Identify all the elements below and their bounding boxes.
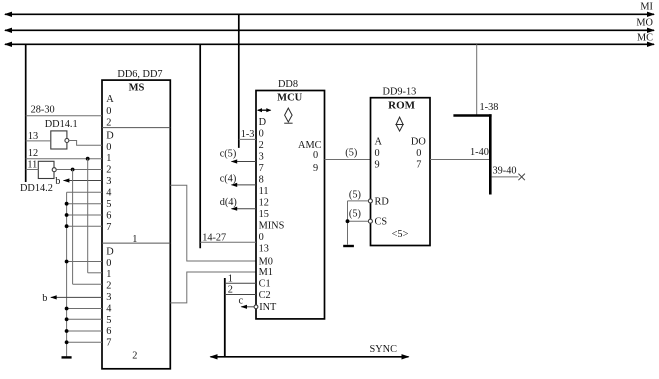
svg-text:0: 0 [375, 148, 380, 159]
wire MS second D2 from DD14.2 rail [73, 283, 102, 285]
svg-text:M0: M0 [259, 256, 273, 267]
wire MS D7 [67, 225, 102, 227]
svg-text:12: 12 [28, 148, 38, 159]
vertical ground rail [66, 192, 68, 357]
wire 11 to DD14.2 input [26, 160, 39, 171]
svg-text:ROM: ROM [388, 99, 416, 111]
svg-text:A: A [375, 137, 383, 148]
svg-text:1-40: 1-40 [470, 147, 489, 158]
wire MS second D1 from 12 rail [88, 272, 102, 274]
wire MS D5 [67, 203, 102, 205]
wire 39-40 with terminator [492, 165, 525, 180]
microprogram control unit MCU DD8 [256, 79, 325, 319]
svg-text:D: D [106, 130, 114, 141]
bus MO [4, 18, 655, 34]
svg-text:D: D [106, 246, 114, 257]
svg-text:c: c [239, 296, 244, 307]
svg-text:13: 13 [259, 244, 269, 255]
bus MC [4, 33, 655, 48]
svg-text:0: 0 [416, 148, 421, 159]
vertical from DD14.2 output [72, 170, 74, 285]
svg-text:1-38: 1-38 [480, 102, 499, 113]
svg-text:7: 7 [106, 222, 111, 233]
svg-text:4: 4 [106, 188, 111, 199]
svg-text:9: 9 [375, 160, 380, 171]
svg-text:4: 4 [106, 303, 111, 314]
wire SYNC [210, 344, 410, 359]
svg-text:11: 11 [27, 160, 37, 171]
svg-text:14-27: 14-27 [202, 233, 226, 244]
svg-text:12: 12 [259, 198, 269, 209]
wire (5) to ROM RD with bubble [348, 189, 373, 203]
svg-text:MC: MC [637, 33, 653, 44]
wire MS second D6 [67, 330, 102, 332]
svg-text:b: b [55, 176, 60, 187]
wire 14-27 into MCU [200, 233, 256, 244]
ground [62, 356, 72, 358]
svg-text:SYNC: SYNC [370, 344, 398, 355]
svg-text:6: 6 [106, 210, 111, 221]
svg-text:28-30: 28-30 [31, 104, 55, 115]
wire dropper from MC to left mux inputs [25, 44, 27, 182]
svg-text:1-3: 1-3 [241, 129, 255, 140]
svg-text:5: 5 [106, 199, 111, 210]
svg-text:C2: C2 [259, 290, 271, 301]
svg-text:MINS: MINS [259, 221, 285, 232]
svg-text:39-40: 39-40 [493, 165, 517, 176]
wire DD14.2 output to MS D2 [56, 169, 102, 171]
ground [343, 245, 354, 247]
svg-text:7: 7 [416, 160, 421, 171]
svg-text:0: 0 [106, 106, 111, 117]
svg-text:c(5): c(5) [220, 148, 237, 159]
wire MS out2 to MCU M1 [170, 272, 256, 303]
wire 1-3 into MCU [239, 129, 256, 140]
wire MS second D0 [67, 261, 102, 263]
wire dropper from MI to MCU 1-3 [238, 14, 240, 148]
wire MS D6 [67, 214, 102, 216]
svg-text:0: 0 [106, 258, 111, 269]
svg-text:2: 2 [132, 351, 137, 362]
svg-text:0: 0 [259, 128, 264, 139]
svg-text:1: 1 [106, 153, 111, 164]
wire 28-30 to MS A [26, 104, 102, 115]
svg-text:0: 0 [313, 150, 318, 161]
group bar horizontal [453, 114, 491, 117]
wire (5) to ROM CS with bubble [348, 209, 373, 224]
bidirectional arrow symbol in MCU [257, 108, 271, 112]
svg-text:c(4): c(4) [220, 174, 237, 185]
svg-text:2: 2 [106, 281, 111, 292]
wire 1 to MCU C1 [225, 274, 256, 285]
svg-text:MS: MS [129, 83, 145, 94]
svg-text:15: 15 [259, 209, 269, 220]
svg-text:D: D [259, 117, 267, 128]
svg-text:DD14.2: DD14.2 [20, 183, 53, 194]
svg-text:DD6, DD7: DD6, DD7 [117, 69, 162, 80]
node CS junction [346, 219, 350, 223]
svg-text:5: 5 [106, 315, 111, 326]
wire 12 to MS D1 [26, 148, 102, 159]
svg-text:DD9-13: DD9-13 [383, 86, 417, 97]
inverter DD14.2 [20, 161, 56, 194]
wire d(4) from MCU pin 12 [220, 197, 256, 211]
svg-text:C1: C1 [259, 279, 271, 290]
wire MS D4 ground feed [67, 191, 102, 193]
svg-text:3: 3 [106, 176, 111, 187]
svg-text:DD14.1: DD14.1 [45, 119, 78, 130]
MCU control diamond symbol [284, 108, 292, 123]
wire c(5) from MCU pin 3 [220, 148, 256, 163]
wire 13 to DD14.1 input [26, 131, 51, 142]
svg-text:3: 3 [259, 151, 264, 162]
node on wire 12 [86, 157, 90, 161]
wire MS out1 to MCU M0 [170, 185, 256, 261]
wire c to MCU INT with bubble [239, 296, 258, 309]
svg-text:0: 0 [106, 142, 111, 153]
wire AMC (5) from MCU to ROM [325, 148, 371, 160]
svg-text:A: A [106, 94, 114, 105]
svg-text:11: 11 [259, 186, 269, 197]
bundle line for C1 C2 [224, 278, 226, 357]
wire 2 to MCU C2 [225, 284, 256, 295]
svg-text:(5): (5) [349, 209, 361, 220]
wire MS second D7 [67, 341, 102, 343]
svg-text:MO: MO [636, 18, 653, 29]
ROM memory diamond symbol [395, 117, 403, 131]
svg-text:1: 1 [228, 274, 233, 285]
named wire b to MS second D3 [42, 293, 102, 304]
svg-text:3: 3 [106, 292, 111, 303]
svg-text:7: 7 [106, 338, 111, 349]
svg-text:RD: RD [375, 196, 390, 207]
RD CS ground rail [347, 201, 349, 245]
inverter DD14.1 [45, 119, 78, 149]
svg-text:MCU: MCU [277, 92, 302, 103]
svg-text:(5): (5) [349, 189, 361, 200]
svg-text:1: 1 [106, 269, 111, 280]
svg-text:b: b [42, 293, 47, 304]
svg-text:MI: MI [640, 2, 653, 13]
svg-text:2: 2 [259, 140, 264, 151]
svg-text:CS: CS [375, 217, 388, 228]
svg-text:DO: DO [411, 137, 426, 148]
svg-text:<5>: <5> [392, 229, 409, 240]
svg-text:0: 0 [259, 232, 264, 243]
group bar vertical [489, 114, 492, 194]
svg-text:INT: INT [259, 302, 277, 313]
svg-text:2: 2 [106, 165, 111, 176]
svg-text:6: 6 [106, 326, 111, 337]
wire DD14.1 output to MS D0 [69, 141, 102, 146]
svg-text:(5): (5) [345, 148, 357, 159]
wire dropper from MC to group bar 1-38 [476, 44, 478, 115]
wire MS second D5 [67, 318, 102, 320]
wire MS second D4 [67, 308, 102, 310]
svg-text:13: 13 [28, 131, 38, 142]
bus MI [4, 2, 655, 18]
wire c(4) from MCU pin 8 [220, 174, 256, 187]
svg-text:8: 8 [259, 174, 264, 185]
wire DO 1-40 from ROM to group bar [430, 147, 490, 159]
svg-text:2: 2 [228, 284, 233, 295]
named wire b to MS D3 [55, 176, 102, 187]
node DD14.2 output [71, 168, 75, 172]
wire dropper from MC to MCU 14-27 [199, 44, 201, 248]
read only memory ROM DD9-13 [371, 86, 431, 245]
svg-text:M1: M1 [259, 267, 273, 278]
svg-text:DD8: DD8 [278, 79, 298, 90]
svg-text:7: 7 [259, 163, 264, 174]
svg-text:d(4): d(4) [220, 197, 237, 208]
vertical from wire 12 [87, 159, 89, 273]
svg-text:9: 9 [313, 163, 318, 174]
svg-text:1: 1 [132, 234, 137, 245]
multiplexer MS DD6,DD7 [102, 69, 170, 369]
svg-text:2: 2 [106, 118, 111, 129]
